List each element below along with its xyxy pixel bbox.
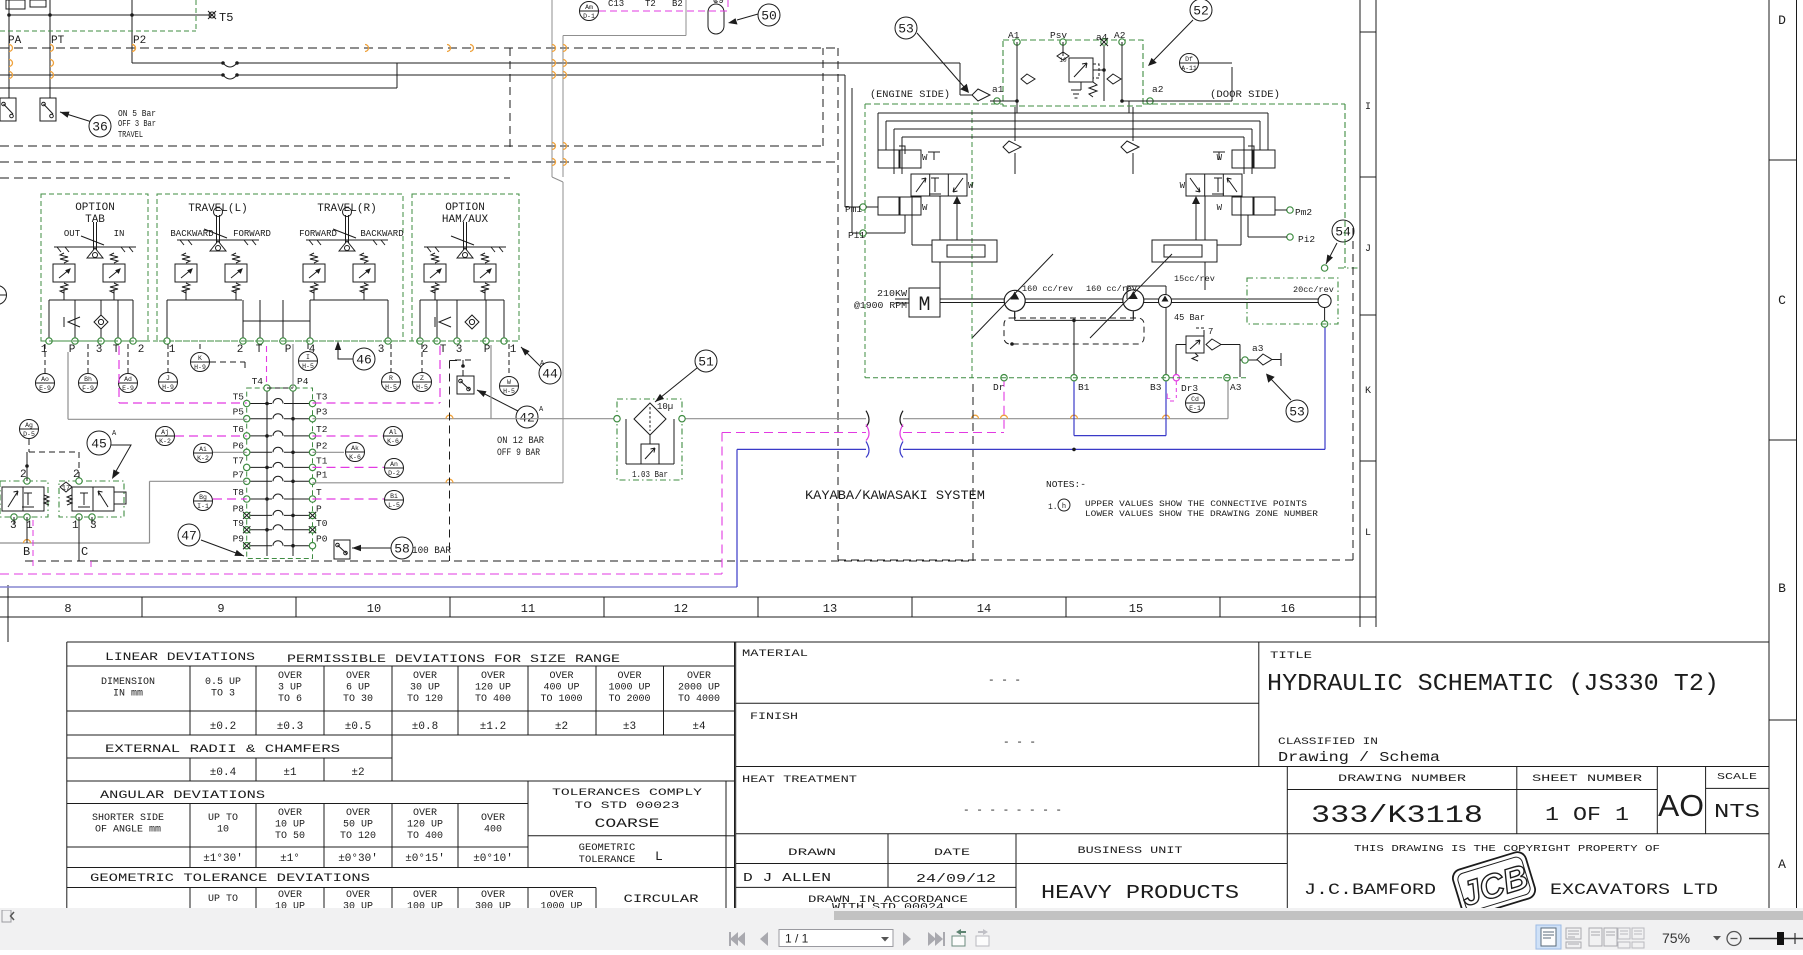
svg-text:TO 30: TO 30: [343, 694, 373, 705]
svg-text:B2: B2: [672, 0, 683, 9]
svg-text:P1: P1: [316, 469, 328, 480]
svg-text:H-9: H-9: [162, 384, 174, 391]
solenoid valve block B: [0, 452, 49, 543]
wire dashed box pump area: [822, 48, 824, 146]
svg-text:0.5 UP: 0.5 UP: [205, 677, 241, 688]
gray feed line from top area: [552, 0, 686, 483]
svg-text:HYDRAULIC SCHEMATIC (JS330 T2): HYDRAULIC SCHEMATIC (JS330 T2): [1267, 671, 1719, 698]
svg-text:±0.8: ±0.8: [412, 721, 438, 733]
callout 47: [178, 524, 244, 556]
svg-text:44: 44: [542, 367, 558, 382]
svg-text:3: 3: [90, 520, 97, 532]
svg-text:FORWARD: FORWARD: [299, 229, 337, 239]
svg-text:100 BAR: 100 BAR: [412, 546, 451, 557]
svg-text:E-9: E-9: [39, 385, 51, 392]
gray return line main: [0, 345, 1228, 543]
svg-text:210KW: 210KW: [877, 289, 908, 299]
svg-text:12: 12: [674, 602, 688, 616]
svg-text:333/K3118: 333/K3118: [1311, 801, 1483, 830]
wire main pressure line y=75: [0, 73, 845, 79]
svg-text:D-1: D-1: [583, 13, 595, 20]
small connector box top-left: [6, 0, 25, 9]
svg-text:T: T: [316, 487, 322, 498]
svg-text:P5: P5: [233, 407, 245, 418]
svg-text:OVER: OVER: [346, 808, 370, 819]
svg-text:1: 1: [72, 520, 79, 532]
svg-text:DIMENSION: DIMENSION: [101, 677, 155, 688]
gear pump 20cc/rev: [1293, 265, 1334, 327]
svg-text:160 cc/rev: 160 cc/rev: [1022, 284, 1073, 294]
svg-text:OPTION: OPTION: [75, 202, 115, 214]
svg-text:OPTION: OPTION: [445, 202, 485, 214]
svg-text:T7: T7: [233, 455, 244, 466]
svg-text:A: A: [112, 430, 117, 438]
svg-text:HAM/AUX: HAM/AUX: [442, 214, 489, 226]
svg-text:TOLERANCE: TOLERANCE: [579, 854, 636, 866]
svg-text:TO STD 00023: TO STD 00023: [575, 800, 680, 812]
wire a1 junction: [960, 63, 1019, 107]
svg-text:8: 8: [64, 602, 71, 616]
svg-text:OVER: OVER: [278, 808, 302, 819]
cross-ref bubbles below valve groups: [36, 344, 519, 396]
svg-text:K-6: K-6: [349, 454, 361, 461]
svg-text:An: An: [390, 461, 398, 468]
svg-text:TRAVEL(L): TRAVEL(L): [188, 203, 247, 215]
wire long dashed pilot bus y=48: [0, 47, 838, 49]
callout 45: [87, 430, 131, 479]
svg-text:±0.2: ±0.2: [210, 721, 236, 733]
svg-text:A: A: [1778, 857, 1786, 872]
history fwd icon: [976, 929, 989, 946]
svg-text:Drawing / Schema: Drawing / Schema: [1278, 751, 1440, 766]
layout single page (active): [1536, 925, 1561, 949]
svg-text:TITLE: TITLE: [1270, 650, 1312, 662]
svg-text:50: 50: [761, 9, 777, 24]
zoom slider: [1749, 938, 1803, 940]
magenta return line: [0, 378, 1004, 574]
svg-text:UPPER VALUES SHOW THE CONNECTI: UPPER VALUES SHOW THE CONNECTIVE POINTS: [1085, 500, 1307, 509]
callout 53 upper: [895, 17, 969, 93]
solenoid valve block C: [59, 452, 126, 561]
svg-text:10µ: 10µ: [657, 402, 673, 412]
pilot pump 15cc/rev: [1127, 274, 1215, 374]
svg-text:1 OF 1: 1 OF 1: [1545, 804, 1629, 826]
svg-text:T2: T2: [645, 0, 656, 9]
svg-text:47: 47: [181, 529, 197, 544]
svg-text:120 UP: 120 UP: [407, 820, 443, 831]
svg-text:W: W: [922, 203, 928, 213]
svg-text:J.C.BAMFORD: J.C.BAMFORD: [1304, 881, 1436, 899]
dashed return boundary: [25, 361, 973, 562]
svg-text:OUT: OUT: [64, 229, 81, 239]
svg-text:EXTERNAL RADII & CHAMFERS: EXTERNAL RADII & CHAMFERS: [105, 744, 341, 756]
svg-text:TO 120: TO 120: [340, 831, 376, 842]
svg-text:A3: A3: [1230, 382, 1242, 393]
svg-text:P7: P7: [233, 469, 244, 480]
svg-text:3 UP: 3 UP: [278, 683, 302, 694]
svg-text:42: 42: [519, 411, 535, 426]
svg-text:MATERIAL: MATERIAL: [742, 648, 808, 660]
regulator right (door side): [1180, 146, 1316, 245]
svg-text:OVER: OVER: [413, 808, 437, 819]
svg-text:SHORTER SIDE: SHORTER SIDE: [92, 813, 164, 824]
wire P-line top: horizontal line to node T5: [7, 11, 233, 25]
svg-text:Ad: Ad: [124, 376, 132, 383]
svg-text:T5: T5: [233, 392, 245, 403]
green drive line: [1338, 267, 1360, 269]
svg-text:H-5: H-5: [503, 388, 515, 395]
layout continuous facing: [1618, 928, 1644, 948]
wire pump feed left: [845, 75, 860, 233]
svg-text:TO 1000: TO 1000: [540, 694, 582, 705]
svg-text:15cc/rev: 15cc/rev: [1174, 274, 1215, 284]
svg-text:SCALE: SCALE: [1717, 771, 1757, 782]
svg-text:T1: T1: [316, 455, 328, 466]
callout 51: [655, 350, 717, 402]
bubble Ag D-5: [20, 420, 39, 439]
svg-text:L: L: [1365, 528, 1371, 539]
svg-text:H-5: H-5: [302, 363, 314, 370]
toolbar controls: [0, 910, 1803, 950]
svg-text:B: B: [23, 545, 30, 559]
svg-text:15: 15: [1129, 602, 1143, 616]
svg-text:2000 UP: 2000 UP: [678, 683, 720, 694]
long dashed border around pump system: [838, 228, 1353, 560]
pump outlet junctions: [1015, 311, 1134, 374]
node PT: [50, 0, 65, 98]
wire dashed riser x=510: [509, 48, 511, 148]
svg-text:C: C: [81, 545, 88, 559]
nav last: [928, 932, 945, 946]
svg-text:A-11: A-11: [1181, 65, 1197, 72]
svg-text:±0°10': ±0°10': [473, 853, 513, 865]
svg-text:GEOMETRIC: GEOMETRIC: [579, 842, 636, 854]
layout facing: [1589, 928, 1617, 946]
svg-text:H-5: H-5: [416, 384, 428, 391]
pressure switch S2 (travel): [40, 98, 56, 121]
svg-text:±0°15': ±0°15': [405, 853, 445, 865]
svg-text:1.03 Bar: 1.03 Bar: [632, 470, 668, 480]
svg-text:a3: a3: [1252, 343, 1264, 354]
svg-text:FORWARD: FORWARD: [233, 229, 271, 239]
sheet zone strip (inner right border I J K L): [1360, 0, 1376, 627]
svg-text:Bg: Bg: [199, 494, 207, 501]
svg-text:THIS DRAWING IS THE COPYRIGHT: THIS DRAWING IS THE COPYRIGHT PROPERTY O…: [1354, 843, 1660, 854]
svg-text:52: 52: [1193, 4, 1209, 19]
svg-text:W: W: [1217, 153, 1223, 163]
svg-text:30 UP: 30 UP: [410, 683, 440, 694]
svg-text:45: 45: [91, 437, 107, 452]
svg-text:1000 UP: 1000 UP: [608, 683, 650, 694]
svg-text:OVER: OVER: [346, 671, 370, 682]
svg-text:h: h: [1062, 503, 1066, 511]
svg-text:B3: B3: [1150, 382, 1162, 393]
svg-text:K: K: [1365, 386, 1371, 397]
wire dashed riser x=838: [837, 48, 839, 560]
svg-text:D-5: D-5: [23, 431, 35, 438]
svg-text:HEAVY PRODUCTS: HEAVY PRODUCTS: [1041, 882, 1239, 904]
svg-text:±2: ±2: [555, 721, 568, 733]
svg-text:LOWER VALUES SHOW THE DRAWING: LOWER VALUES SHOW THE DRAWING ZONE NUMBE…: [1085, 510, 1318, 519]
svg-text:P: P: [316, 503, 322, 514]
svg-text:M: M: [918, 294, 930, 317]
svg-text:NTS: NTS: [1714, 801, 1760, 823]
valve group TRAVEL L and R: [157, 194, 404, 356]
svg-text:11: 11: [521, 602, 535, 616]
svg-text:14: 14: [977, 602, 991, 616]
callout 46: [335, 341, 375, 370]
svg-text:CIRCULAR: CIRCULAR: [624, 894, 700, 906]
svg-text:- - -: - - -: [1003, 737, 1036, 749]
svg-text:UP TO: UP TO: [208, 813, 238, 824]
svg-text:16: 16: [1281, 602, 1295, 616]
svg-text:OVER: OVER: [481, 890, 505, 901]
svg-text:±0.5: ±0.5: [345, 721, 371, 733]
svg-text:HEAT TREATMENT: HEAT TREATMENT: [742, 774, 857, 786]
callout 44: [521, 347, 561, 384]
svg-text:Bh: Bh: [84, 376, 92, 383]
svg-text:J: J: [166, 375, 170, 382]
svg-text:±1.2: ±1.2: [480, 721, 506, 733]
svg-text:Ao: Ao: [41, 376, 49, 383]
svg-text:Pm1: Pm1: [845, 204, 862, 215]
svg-text:±2: ±2: [351, 767, 364, 779]
svg-text:OF ANGLE mm: OF ANGLE mm: [95, 825, 161, 836]
svg-text:P: P: [285, 344, 292, 356]
svg-text:C13: C13: [608, 0, 624, 9]
pump case drain dashed box: [1004, 312, 1144, 346]
green return rail: [865, 104, 1247, 378]
svg-text:K-6: K-6: [387, 438, 399, 445]
layout continuous: [1566, 928, 1581, 948]
svg-text:OVER: OVER: [278, 890, 302, 901]
svg-text:R: R: [389, 375, 393, 382]
pressure switch 58 100 BAR: [334, 537, 451, 559]
svg-text:Aj: Aj: [161, 429, 169, 436]
svg-text:E-9: E-9: [122, 385, 134, 392]
sidebar handle: [2, 910, 11, 922]
green pilot port rail: [41, 340, 519, 342]
svg-text:LINEAR DEVIATIONS: LINEAR DEVIATIONS: [105, 652, 256, 664]
pipe break marks: [866, 411, 903, 427]
svg-text:GEOMETRIC TOLERANCE DEVIATIONS: GEOMETRIC TOLERANCE DEVIATIONS: [90, 873, 371, 885]
svg-text:1: 1: [41, 344, 48, 356]
svg-text:Dr: Dr: [993, 382, 1004, 393]
pilot relief block Psv: [1003, 30, 1143, 106]
svg-text:10 UP: 10 UP: [275, 820, 305, 831]
svg-text:Dr3: Dr3: [1181, 383, 1198, 394]
check valve diamonds mid: [1021, 74, 1121, 84]
svg-text:W: W: [1217, 203, 1223, 213]
svg-text:17: 17: [62, 485, 70, 493]
svg-text:OVER: OVER: [413, 671, 437, 682]
svg-text:20cc/rev: 20cc/rev: [1293, 285, 1334, 295]
main pump P2 160cc/rev: [1086, 254, 1172, 338]
callout 36 ON 5 Bar OFF 3 Bar TRAVEL: [60, 108, 156, 140]
svg-text:3: 3: [10, 520, 17, 532]
svg-text:120 UP: 120 UP: [475, 683, 511, 694]
svg-text:T4: T4: [252, 376, 264, 387]
pump shaft: [940, 299, 1318, 303]
svg-text:±1: ±1: [283, 767, 297, 779]
filter 51 with bypass 1.03 Bar: [614, 399, 685, 480]
svg-text:TO 4000: TO 4000: [678, 694, 720, 705]
node PA: [8, 0, 22, 98]
svg-text:2: 2: [422, 344, 429, 356]
pressure switch S1: [0, 98, 16, 121]
svg-text:46: 46: [356, 353, 372, 368]
svg-text:TOLERANCES COMPLY: TOLERANCES COMPLY: [552, 787, 703, 799]
bubble Df A-11: [1180, 54, 1233, 73]
svg-text:W: W: [507, 379, 511, 386]
svg-text:13: 13: [823, 602, 837, 616]
svg-text:1: 1: [510, 344, 517, 356]
svg-text:6 UP: 6 UP: [346, 683, 370, 694]
servo cylinder right: [1152, 196, 1241, 262]
svg-text:1 / 1: 1 / 1: [785, 932, 809, 946]
svg-text:54: 54: [1335, 225, 1351, 240]
half bubble at left edge: [0, 286, 7, 305]
svg-text:400: 400: [484, 825, 502, 836]
svg-text:7: 7: [1208, 327, 1213, 337]
svg-text:D J ALLEN: D J ALLEN: [743, 872, 831, 885]
wire main pressure line y=63: [132, 61, 960, 67]
wire a2 junction: [1120, 67, 1232, 104]
gray pilot feed P4: [292, 344, 294, 388]
svg-text:OFF 3 Bar: OFF 3 Bar: [118, 118, 156, 129]
svg-text:W: W: [1180, 181, 1186, 191]
svg-text:- - - - - - - -: - - - - - - - -: [963, 805, 1062, 817]
svg-text:J: J: [1365, 244, 1371, 255]
svg-text:±0.3: ±0.3: [277, 721, 303, 733]
JCB logo: [1451, 850, 1538, 918]
svg-text:OVER: OVER: [549, 671, 573, 682]
svg-text:H-5: H-5: [385, 384, 397, 391]
zoom out: [1727, 932, 1741, 946]
svg-text:53: 53: [1289, 405, 1305, 420]
svg-text:Ai: Ai: [199, 446, 207, 453]
title block tolerance tables: [67, 642, 1769, 920]
svg-text:T3: T3: [316, 392, 328, 403]
history back icon: [952, 929, 966, 946]
svg-text:TO 3: TO 3: [211, 689, 235, 700]
ladder cross-ref bubbles: [156, 427, 404, 511]
svg-text:L-5: L-5: [388, 502, 400, 509]
svg-text:36: 36: [92, 120, 108, 135]
svg-text:TRAVEL(R): TRAVEL(R): [317, 203, 376, 215]
svg-text:OVER: OVER: [346, 890, 370, 901]
svg-text:53: 53: [898, 22, 914, 37]
svg-text:H-9: H-9: [194, 364, 206, 371]
magenta top link: [599, 0, 728, 11]
svg-text:2: 2: [237, 344, 244, 356]
svg-text:58: 58: [394, 542, 410, 557]
svg-text:TRAVEL: TRAVEL: [118, 129, 143, 140]
svg-text:T2: T2: [316, 424, 328, 435]
svg-text:T0: T0: [316, 518, 328, 529]
svg-text:T9: T9: [233, 518, 245, 529]
svg-text:T8: T8: [233, 487, 245, 498]
svg-text:P: P: [484, 344, 491, 356]
svg-text:EXCAVATORS LTD: EXCAVATORS LTD: [1550, 881, 1718, 899]
svg-text:TO 120: TO 120: [407, 694, 443, 705]
svg-text:K-2: K-2: [159, 438, 171, 445]
wire dashed pilot bus y=146: [0, 145, 823, 147]
green pump boundary right: [865, 104, 1345, 268]
svg-text:SHEET NUMBER: SHEET NUMBER: [1532, 774, 1642, 785]
sheet outer right border strip (D C B A): [1769, 0, 1797, 922]
svg-text:OFF 9 BAR: OFF 9 BAR: [497, 448, 540, 459]
callout 53 lower: [1266, 374, 1308, 423]
svg-text:Pi1: Pi1: [848, 230, 865, 241]
svg-text:I: I: [1365, 102, 1371, 113]
svg-text:a1: a1: [992, 84, 1004, 95]
svg-text:IN: IN: [114, 229, 125, 239]
svg-text:P4: P4: [297, 376, 309, 387]
svg-text:3: 3: [456, 344, 463, 356]
regulator cross lines: [878, 101, 1268, 290]
svg-text:D-2: D-2: [388, 470, 400, 477]
svg-text:3: 3: [96, 344, 103, 356]
pump drain ports: [993, 375, 1242, 403]
svg-text:TAB: TAB: [85, 214, 105, 226]
svg-text:Pm2: Pm2: [1295, 207, 1312, 218]
svg-text:AO: AO: [1658, 788, 1704, 823]
tolerance table text: [90, 652, 720, 913]
wire green pilot line: [0, 0, 196, 31]
nav prev: [760, 932, 768, 946]
svg-text:B1: B1: [1078, 382, 1090, 393]
check valves upper: [1003, 107, 1139, 174]
svg-text:TO 6: TO 6: [278, 694, 302, 705]
svg-text:Am: Am: [585, 4, 593, 11]
svg-text:±4: ±4: [692, 721, 706, 733]
svg-text:W: W: [922, 153, 928, 163]
callout 54: [1326, 220, 1354, 264]
svg-text:Df: Df: [1185, 56, 1193, 63]
svg-text:TO 2000: TO 2000: [608, 694, 650, 705]
svg-text:24/09/12: 24/09/12: [916, 873, 996, 886]
svg-text:E-1: E-1: [1189, 405, 1201, 412]
svg-text:P2: P2: [316, 440, 328, 451]
svg-text:45 Bar: 45 Bar: [1174, 312, 1205, 323]
svg-text:OVER: OVER: [549, 890, 573, 901]
svg-text:L: L: [655, 849, 663, 864]
blue drain line: [0, 324, 1325, 587]
svg-text:COARSE: COARSE: [595, 816, 660, 831]
svg-text:2: 2: [138, 344, 145, 356]
node P2: [132, 0, 146, 63]
valve group OPTION HAM/AUX: [412, 194, 519, 356]
svg-text:BACKWARD: BACKWARD: [360, 229, 403, 239]
svg-text:9: 9: [217, 602, 224, 616]
svg-text:±3: ±3: [623, 721, 636, 733]
svg-text:±1°: ±1°: [280, 853, 300, 865]
svg-text:T: T: [440, 344, 447, 356]
svg-text:10: 10: [367, 602, 381, 616]
svg-text:1: 1: [169, 344, 176, 356]
svg-text:CLASSIFIED IN: CLASSIFIED IN: [1278, 736, 1378, 748]
accumulator C9: [708, 0, 724, 34]
bubble Cd E-1: [1186, 394, 1205, 413]
svg-text:DRAWN: DRAWN: [788, 847, 836, 859]
svg-text:P8: P8: [233, 503, 245, 514]
svg-text:P3: P3: [316, 407, 328, 418]
svg-text:NOTES:-: NOTES:-: [1046, 479, 1086, 490]
svg-text:10: 10: [1059, 57, 1067, 64]
svg-text:TO 50: TO 50: [275, 831, 305, 842]
main pump P1 160cc/rev: [972, 254, 1073, 338]
